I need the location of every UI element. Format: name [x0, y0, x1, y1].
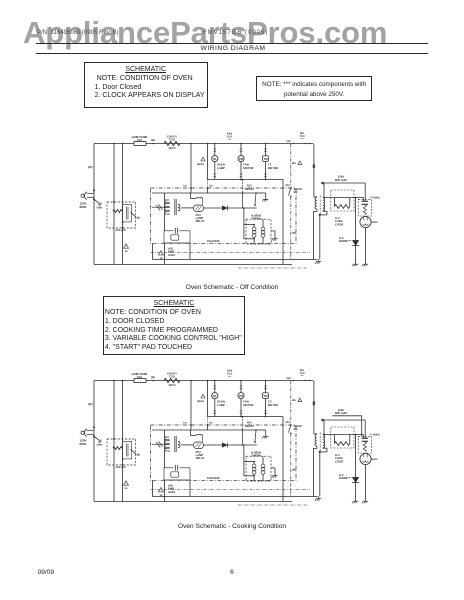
- svg-text:MOTOR: MOTOR: [268, 166, 278, 170]
- wire top supply rail L1 (S2): [94, 380, 313, 382]
- HVT secondary bottom jog (S1): [319, 211, 327, 216]
- wire T2 left drop (S1): [164, 193, 166, 231]
- label CAVITY TCO (S2): [167, 372, 177, 387]
- interlock connector (S1): [123, 204, 132, 222]
- label HV diode (S1): [339, 237, 352, 243]
- label wire W (S2): [88, 402, 93, 406]
- interlock connector (S2): [123, 441, 132, 459]
- wire HVT secondary top (S1): [323, 183, 325, 198]
- wire stem above fan motor FM (S1): [240, 143, 243, 156]
- wire resistor taps (S1): [334, 198, 349, 207]
- wire relay feed (S1): [242, 179, 244, 193]
- capacitor on PCB (S2): [152, 441, 165, 447]
- HVT secondary (S2): [323, 435, 325, 448]
- label RY2 oven lamp relay (S1): [196, 214, 205, 223]
- junction dots interlock (S2): [122, 459, 124, 466]
- wire diode branch (S2): [355, 434, 357, 478]
- A-D PWB box (S1): [164, 231, 190, 243]
- wire HVT to ground (S2): [319, 452, 321, 497]
- wire vertical to LVT connector (S2): [122, 381, 124, 502]
- capacitor on PCB (S1): [152, 204, 165, 210]
- wire A-D right down (S1): [189, 243, 191, 259]
- svg-text:DIODE ***: DIODE ***: [339, 477, 352, 480]
- svg-text:THERM: THERM: [251, 454, 261, 457]
- svg-text:GRN: GRN: [97, 206, 103, 209]
- chassis ground sensor (S2): [271, 474, 277, 478]
- svg-text:TM: TM: [263, 157, 268, 161]
- svg-text:14: 14: [125, 487, 128, 490]
- svg-text:(W): (W): [151, 376, 155, 379]
- relay contact coil (S2): [196, 434, 203, 442]
- wire diode to ground (S2): [355, 483, 357, 499]
- label RY1 power relay (S2): [245, 421, 254, 428]
- header part number text: [37, 30, 119, 36]
- svg-text:***: ***: [301, 138, 304, 141]
- svg-text:ACL3 M: ACL3 M: [116, 466, 127, 469]
- label ACL3 (S1): [116, 229, 127, 232]
- label 12kV spark gap (S1): [335, 175, 348, 182]
- svg-text:THERM: THERM: [251, 217, 261, 220]
- wire stem below turntable motor TTM (S2): [264, 399, 267, 417]
- label RY1 power relay (S1): [245, 184, 254, 191]
- label H.SENS (S2): [251, 452, 261, 458]
- HV capacitor C1 (S1): [362, 198, 368, 205]
- wire stem below turntable motor TTM (S1): [264, 162, 267, 180]
- header model text: [203, 30, 268, 36]
- svg-text:OL: OL: [213, 157, 217, 161]
- warning triangle 14 (S2): [124, 481, 129, 490]
- wire heater bottom (S1): [244, 238, 255, 240]
- bleed resistor box (S2): [331, 427, 354, 448]
- svg-text:CN: CN: [183, 421, 187, 424]
- label HV capacitor (S2): [335, 454, 343, 463]
- label RY2 oven lamp relay (S2): [196, 451, 205, 460]
- turntable motor TTM (S2): [263, 393, 269, 399]
- label HV cap 250V (S2): [370, 434, 380, 437]
- relay RY1 contact blade (S1): [254, 193, 256, 206]
- svg-text:(W): (W): [151, 139, 155, 142]
- ground lead GRN (S2): [94, 436, 102, 446]
- magnetron antenna (S2): [371, 458, 377, 460]
- svg-text:(B): (B): [137, 454, 141, 457]
- wire heater feed (S1): [244, 224, 255, 226]
- wire filament lead 2 (S2): [332, 416, 361, 437]
- wire relay to ground (S1): [256, 193, 266, 197]
- oven lamp OL (S1): [212, 156, 218, 162]
- wire PCB top link (S1): [191, 193, 196, 199]
- chassis boundary dashdot (S1): [290, 144, 292, 259]
- svg-text:***: ***: [228, 139, 231, 142]
- label MGT TCO top (S2): [299, 369, 304, 378]
- wire coil drop (S2): [242, 430, 244, 445]
- warning triangle 14 (S1): [124, 244, 129, 253]
- chassis dashdot mid (S2): [151, 489, 311, 491]
- heater sensor box (S1): [246, 219, 271, 244]
- wire stem above oven lamp OL (S2): [214, 380, 217, 393]
- capacitor on A-D box (S2): [175, 465, 177, 471]
- chassis dashdot segment (S2): [238, 504, 307, 506]
- wire stem below fan motor FM (S1): [240, 162, 243, 180]
- svg-text:GRN: GRN: [97, 443, 103, 446]
- wire spark gap line (S1): [321, 182, 365, 201]
- label oven lamp OL (S1): [217, 163, 225, 170]
- sensor coil 1 (S2): [252, 462, 256, 481]
- label MGT TCO top (S1): [299, 132, 304, 141]
- bleed resistor R1 (S2): [334, 442, 349, 446]
- wire ladder left drop (S1): [207, 143, 209, 180]
- svg-text:OL: OL: [213, 394, 217, 398]
- wire stem below oven lamp OL (S2): [214, 399, 217, 417]
- label turntable motor TTM (S2): [268, 400, 278, 407]
- svg-text:*** MAG: *** MAG: [370, 197, 380, 200]
- wire vertical to LVT connector (S1): [122, 144, 124, 265]
- svg-text:CN: CN: [183, 184, 187, 187]
- wire heater bottom (S2): [244, 475, 255, 477]
- watermark AppliancePartsPros.com: [23, 15, 387, 51]
- HV diode D2 (S1): [352, 240, 359, 245]
- label short switch (S2): [294, 425, 303, 431]
- power cord plug P1 (S2): [81, 426, 95, 437]
- label fan motor FM (S2): [243, 400, 253, 407]
- sensor coil 2 (S2): [261, 456, 265, 481]
- T2 primary winding (S2): [165, 437, 169, 452]
- svg-text:RELAY: RELAY: [245, 425, 254, 428]
- wire HVT to ground (S1): [319, 215, 321, 260]
- label BLK (S1): [197, 163, 204, 166]
- control PWB outline (S2): [151, 425, 297, 480]
- wire stem below fan motor FM (S2): [240, 399, 243, 417]
- wire T2 left drop (S2): [164, 430, 166, 468]
- svg-text:ASSY: ASSY: [168, 254, 176, 257]
- label HV cap 250V (S1): [370, 197, 380, 200]
- svg-text:CHASSIS: CHASSIS: [207, 476, 220, 480]
- chassis ground diode (S1): [352, 262, 358, 266]
- A-D component (S1): [171, 235, 179, 240]
- wire relay bus (S1): [152, 192, 257, 194]
- wire left vertical neutral (S1): [93, 144, 95, 265]
- HV capacitor box (S1): [358, 199, 371, 216]
- svg-text:ASSY: ASSY: [168, 491, 176, 494]
- label LINE FUSE 15A (S1): [132, 135, 148, 142]
- svg-text:LAMP: LAMP: [217, 166, 225, 170]
- wire ladder right drop (S2): [282, 417, 284, 502]
- HV transformer primary (S2): [315, 435, 317, 447]
- chassis ground at RY1 (S2): [262, 434, 268, 438]
- svg-text:CN: CN: [209, 421, 213, 424]
- label power cord 120V 60Hz (S1): [80, 202, 88, 210]
- svg-text:*** MAG: *** MAG: [370, 434, 380, 437]
- wire ladder to PCB (S1): [207, 180, 213, 194]
- wire T2 to relay RY2 (S1): [181, 207, 193, 209]
- wire A-D to rail (S2): [164, 480, 166, 502]
- svg-text:CITOR: CITOR: [335, 460, 343, 463]
- wire relay to ground (S2): [256, 430, 266, 434]
- svg-text:CN: CN: [209, 184, 213, 187]
- thermal cutout CAVITY TCO (S1): [164, 141, 180, 145]
- wire HV lead (S1): [324, 197, 364, 199]
- chassis ground magnetron (S2): [362, 499, 368, 503]
- wire PCB top link (S2): [191, 430, 196, 436]
- label BLK (S2): [197, 400, 204, 403]
- label W right (S1): [286, 184, 290, 187]
- wire rail to PCB left (S2): [183, 380, 192, 430]
- chassis ground at RY1 (S1): [262, 197, 268, 201]
- footer date 09/09: [38, 569, 55, 576]
- svg-text:MOTOR: MOTOR: [243, 403, 253, 407]
- label chassis (S1): [207, 239, 220, 243]
- chassis ground HVT (S1): [292, 232, 321, 264]
- wire HV lead (S2): [324, 434, 364, 436]
- wire vertical to LVT primary (S2): [113, 381, 115, 502]
- wire ladder left drop (S2): [207, 380, 209, 417]
- svg-text:150°C: 150°C: [168, 147, 176, 150]
- note box schematic cooking condition: [103, 296, 246, 356]
- HV transformer primary (S1): [315, 198, 317, 210]
- wire rail to PCB left (S1): [183, 143, 192, 193]
- magnetron TCO warning (S1): [292, 161, 302, 165]
- turntable motor TTM (S1): [263, 156, 269, 162]
- svg-text:FM: FM: [239, 157, 244, 161]
- chassis boundary dashdot (S2): [290, 381, 292, 496]
- svg-text:60Hz: 60Hz: [80, 442, 88, 446]
- wire stem above fan motor FM (S2): [240, 380, 243, 393]
- svg-text:(W): (W): [292, 469, 296, 472]
- label chassis (S2): [207, 476, 220, 480]
- wire magnetron to ground (S2): [365, 465, 367, 499]
- interlock resistor (S1): [113, 201, 122, 213]
- interlock resistor (S2): [113, 438, 122, 450]
- wire stem above turntable motor TTM (S1): [264, 143, 267, 156]
- label HV capacitor (S1): [335, 217, 343, 226]
- note box schematic off condition: [84, 62, 208, 108]
- label fan motor FM (S1): [243, 163, 253, 170]
- wire junction to heater box (S2): [243, 444, 245, 476]
- wire chassis return (S2): [152, 480, 317, 496]
- wire chassis return (S1): [152, 243, 317, 259]
- wire bottom neutral rail (S1): [94, 264, 292, 266]
- magnetron MG1 (S1): [360, 216, 371, 227]
- svg-text:RELAY: RELAY: [196, 457, 205, 460]
- fuse F1 LINE FUSE 15A (S2): [134, 379, 146, 383]
- header rule upper: [36, 43, 428, 44]
- wire diode branch (S1): [355, 197, 357, 241]
- oven lamp OL (S2): [212, 393, 218, 399]
- wire relay feed (S2): [242, 416, 244, 430]
- svg-text:ACL3 M: ACL3 M: [116, 229, 127, 232]
- junction node W (S1): [151, 139, 155, 144]
- svg-text:RELAY: RELAY: [245, 188, 254, 191]
- HV capacitor C1 (S2): [362, 435, 368, 442]
- svg-text:(W): (W): [88, 165, 93, 169]
- wire bottom neutral rail (S2): [94, 501, 292, 503]
- svg-text:TCO: TCO: [169, 375, 176, 379]
- svg-text:(W): (W): [286, 421, 290, 424]
- svg-text:(W): (W): [286, 184, 290, 187]
- HVT secondary bottom jog (S2): [319, 448, 327, 453]
- wire A-D right down (S2): [189, 480, 191, 496]
- wire resistor taps (S2): [334, 435, 349, 444]
- relay RY2 coil (S2): [194, 442, 204, 449]
- wire top supply rail L1 (S1): [94, 143, 313, 145]
- svg-text:(W): (W): [287, 140, 291, 143]
- wire ladder bottom bus (S2): [208, 416, 284, 418]
- interlock switch blade (S1): [130, 212, 140, 219]
- label LINE FUSE 15A (S2): [132, 372, 148, 379]
- svg-text:***: ***: [228, 376, 231, 379]
- wire diode to ground (S1): [355, 246, 357, 262]
- T2 secondary coil (S1): [178, 204, 180, 211]
- label CAVITY TCO (S1): [167, 135, 177, 150]
- label turntable motor TTM (S1): [268, 163, 278, 170]
- svg-text:MG: MG: [292, 399, 296, 402]
- svg-text:(B): (B): [137, 217, 141, 220]
- junction dots rail left (S1): [113, 143, 123, 145]
- control PWB outline (S1): [151, 188, 297, 243]
- wire sensor to ground (S1): [271, 231, 275, 237]
- junction ticks rail right (S1): [287, 140, 310, 144]
- HVT core (S1): [319, 196, 321, 215]
- warning triangle lamp (S1): [201, 157, 205, 161]
- wire coil drop (S1): [242, 193, 244, 208]
- interlock box (S1): [107, 202, 136, 228]
- capacitor on A-D box (S1): [175, 228, 177, 234]
- thermal cutout CAVITY TCO (S2): [164, 378, 180, 382]
- label H.SENS (S1): [251, 215, 261, 221]
- svg-text:(W): (W): [287, 377, 291, 380]
- magnetron TCO warning (S2): [292, 398, 302, 402]
- caption oven schematic off condition: [110, 284, 354, 291]
- filament choke (S1): [363, 205, 366, 215]
- relay RY1 contact blade (S2): [254, 430, 256, 443]
- svg-text:60Hz: 60Hz: [80, 205, 88, 209]
- wire ladder bottom bus (S1): [208, 179, 284, 181]
- HVT primary bottom jog (S1): [313, 209, 317, 260]
- fan motor FM (S2): [238, 393, 244, 399]
- wire relay bus (S2): [152, 429, 257, 431]
- svg-text:(BLK): (BLK): [197, 163, 204, 166]
- wire ladder to PCB (S2): [207, 417, 213, 431]
- label 12kV spark gap (S2): [335, 408, 348, 415]
- chassis ground magnetron (S1): [362, 262, 368, 266]
- label A-D PWB ASSY (S1): [168, 248, 176, 257]
- svg-text:SPK GAP: SPK GAP: [335, 411, 348, 415]
- svg-text:CITOR: CITOR: [335, 223, 343, 226]
- T2 secondary coil (S2): [178, 441, 180, 448]
- svg-text:TCO: TCO: [169, 138, 176, 142]
- wire vertical to LVT primary (S1): [113, 144, 115, 265]
- interlock switch blade (S2): [130, 449, 140, 456]
- wire magnetron to ground (S1): [365, 228, 367, 262]
- diode D1 (S2): [204, 443, 257, 448]
- svg-text:15A: 15A: [137, 138, 142, 142]
- svg-text:LAMP: LAMP: [217, 403, 225, 407]
- filament choke (S2): [363, 442, 366, 452]
- label noise filter (S1): [227, 133, 232, 142]
- T2 core (S1): [175, 199, 176, 215]
- wire to HVT primary (S2): [314, 381, 317, 434]
- magnetron antenna (S1): [371, 221, 377, 223]
- svg-text:(BLK): (BLK): [197, 400, 204, 403]
- svg-text:MOTOR: MOTOR: [268, 403, 278, 407]
- label wire W (S1): [88, 165, 93, 169]
- wire stem above oven lamp OL (S1): [214, 143, 217, 156]
- svg-text:CHASSIS: CHASSIS: [207, 239, 220, 243]
- svg-text:MOTOR: MOTOR: [243, 166, 253, 170]
- junction node W (S2): [151, 376, 155, 381]
- wire to HVT primary (S1): [314, 144, 317, 197]
- sensor coil 2 (S1): [261, 219, 265, 244]
- svg-text:SW: SW: [294, 191, 299, 194]
- warning triangle lamp (S2): [201, 394, 205, 398]
- chassis dashdot mid (S1): [151, 252, 311, 254]
- footer page number 6: [0, 569, 464, 576]
- HVT primary bottom jog (S2): [313, 446, 317, 497]
- title WIRING DIAGRAM: [36, 45, 430, 52]
- svg-text:(W): (W): [88, 402, 93, 406]
- diode D1 (S1): [204, 206, 257, 211]
- ground lead GRN (S1): [94, 199, 102, 209]
- relay contact coil (S1): [196, 197, 203, 205]
- svg-text:SW: SW: [294, 428, 299, 431]
- HV diode D2 (S2): [352, 477, 359, 482]
- svg-text:***: ***: [301, 375, 304, 378]
- bleed resistor box (S1): [331, 190, 354, 211]
- relay RY2 coil (S1): [194, 205, 204, 212]
- fan motor FM (S1): [238, 156, 244, 162]
- HVT secondary (S1): [323, 198, 325, 211]
- wire left vertical neutral (S2): [93, 381, 95, 502]
- connector tick on HVT lead (S2): [313, 402, 315, 406]
- label ACL3 (S2): [116, 466, 127, 469]
- wire A-D to rail (S1): [164, 243, 166, 265]
- svg-text:14: 14: [125, 250, 128, 253]
- bleed resistor R1 (S1): [334, 205, 349, 209]
- sensor coil 1 (S1): [252, 225, 256, 244]
- A-D component (S2): [171, 472, 179, 477]
- HVT core (S2): [319, 433, 321, 452]
- caption oven schematic cooking condition: [110, 523, 354, 530]
- label power cord 120V 60Hz (S2): [80, 439, 88, 447]
- svg-text:DIODE ***: DIODE ***: [339, 240, 352, 243]
- interlock box (S2): [107, 439, 136, 465]
- junction dots rail left (S2): [113, 380, 123, 382]
- label W right (S2): [286, 421, 290, 424]
- svg-text:MG: MG: [292, 162, 296, 165]
- warning triangle 18 (S1): [159, 251, 164, 260]
- chassis ground HVT (S2): [292, 469, 321, 501]
- fuse F1 LINE FUSE 15A (S1): [134, 142, 146, 146]
- A-D PWB box (S2): [164, 468, 190, 480]
- svg-text:RELAY: RELAY: [196, 220, 205, 223]
- wire junction to heater box (S1): [243, 207, 245, 239]
- svg-text:SPK GAP: SPK GAP: [335, 178, 348, 182]
- magnetron MG1 (S2): [360, 453, 371, 464]
- wire stem below oven lamp OL (S1): [214, 162, 217, 180]
- junction dots interlock (S1): [122, 222, 124, 229]
- chassis ground sensor (S1): [271, 237, 277, 241]
- svg-text:TM: TM: [263, 394, 268, 398]
- svg-text:(W): (W): [292, 232, 296, 235]
- wire spark gap line (S2): [321, 419, 365, 438]
- header rule lower: [36, 53, 428, 54]
- chassis dashdot segment (S1): [238, 267, 307, 269]
- wire HVT secondary top (S2): [323, 420, 325, 435]
- wire T2 to relay RY2 (S2): [181, 444, 193, 446]
- svg-text:FM: FM: [239, 394, 244, 398]
- door short switch (S1): [289, 187, 292, 197]
- junction ticks rail right (S2): [287, 377, 310, 381]
- label A-D PWB ASSY (S2): [168, 485, 176, 494]
